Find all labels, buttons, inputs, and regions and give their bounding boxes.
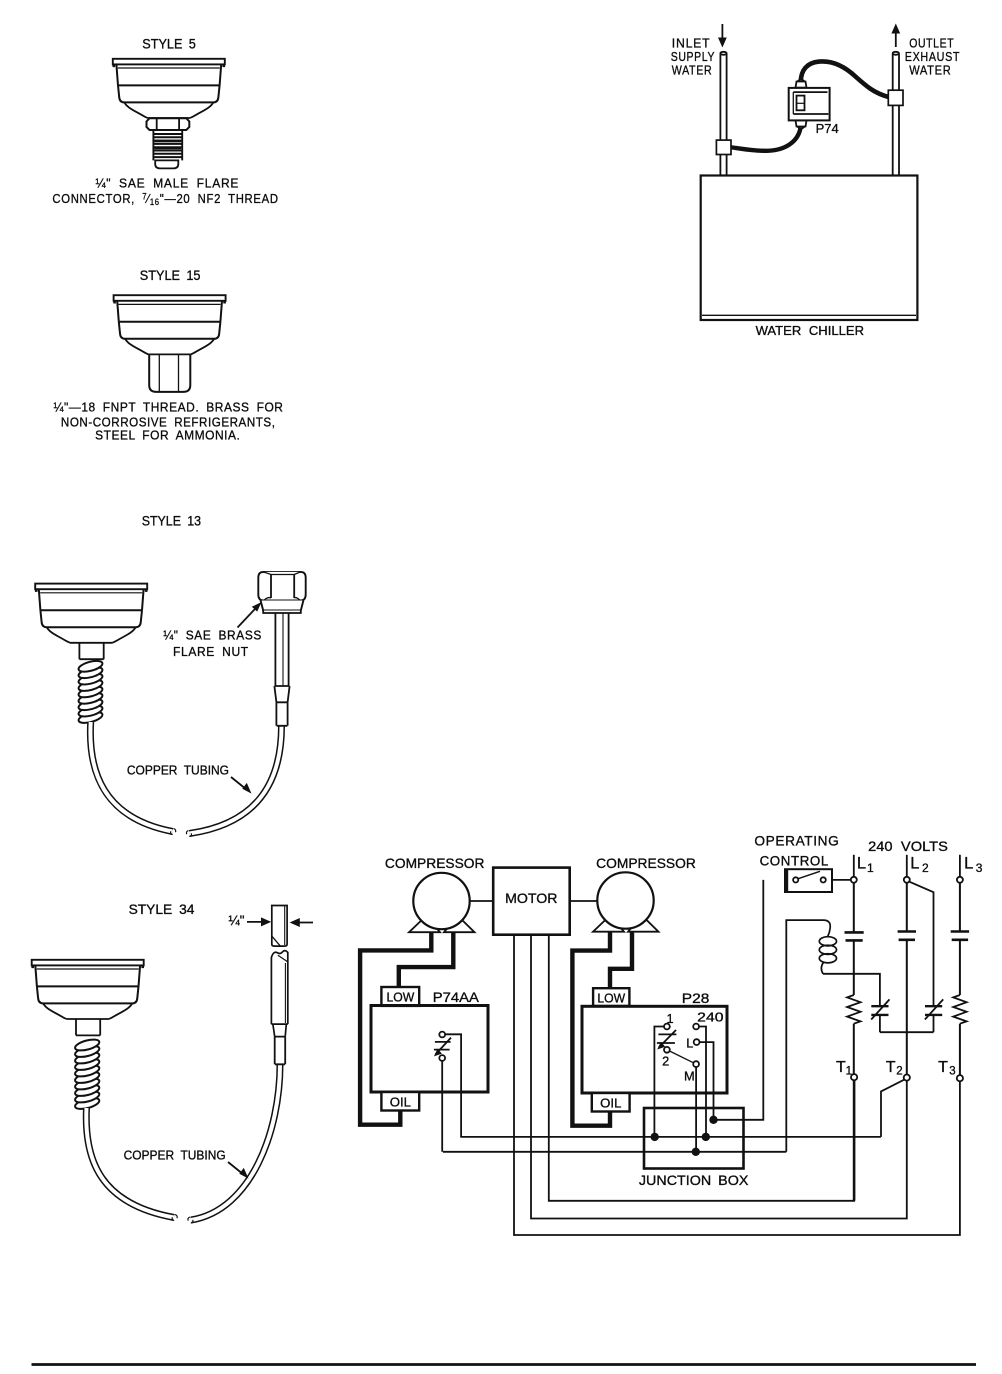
svg-text:STYLE 13: STYLE 13 [142,513,201,528]
style 34 copper tube left arc [86,1108,177,1221]
label 1/4 SAE BRASS FLARE NUT [163,628,262,659]
svg-text:WATER: WATER [672,62,713,77]
label OUTLET EXHAUST WATER [905,36,960,78]
L3 wire upper [959,883,961,932]
L2 terminal [904,855,910,883]
style 13 flare nut [258,572,305,613]
style 15 control body [114,295,226,354]
outlet pipe [893,52,899,176]
style 13 coil spring [77,659,103,725]
junction box [644,1108,744,1169]
svg-text:240 VOLTS: 240 VOLTS [868,839,948,854]
arrow to tube (style 13) [231,777,252,794]
capillary from P74 to outlet pipe [801,61,889,97]
style 13 stem [79,643,103,659]
P74AA OIL port [381,1092,419,1111]
P28 terminal 240 [693,1010,723,1030]
P28 terminal 1 [664,1011,674,1029]
junction dot A [651,1133,659,1141]
L1 wire lower [853,1024,855,1074]
svg-text:WATER CHILLER: WATER CHILLER [756,323,864,338]
P74AA LOW port [381,987,419,1006]
wire operating control to L1 [832,879,851,881]
water chiller tank [701,176,918,321]
L3 wire middle [959,940,961,995]
svg-text:L: L [964,855,973,873]
svg-text:FLARE NUT: FLARE NUT [173,644,249,659]
svg-text:¼"—18 FNPT THREAD. BRASS FOR: ¼"—18 FNPT THREAD. BRASS FOR [54,399,284,414]
style 13 copper tube left arc [90,722,175,835]
capillary from P74 to inlet pipe [731,126,801,151]
T1 terminal [851,1074,857,1080]
svg-text:STYLE 5: STYLE 5 [142,36,196,51]
L2 wire lower [906,940,908,1075]
junction dot B [702,1133,710,1141]
style 5 hex nut [147,118,190,130]
motor lead wire to T2 loop [531,935,907,1219]
svg-text:JUNCTION BOX: JUNCTION BOX [639,1173,749,1189]
svg-text:STYLE 34: STYLE 34 [129,902,195,917]
label 1/4 inch (style 34) [229,913,245,928]
wire compressor 2 to LOW (P28) [610,915,632,989]
svg-text:COPPER TUBING: COPPER TUBING [127,763,229,778]
wire compressor 1 to OIL (P74AA) [360,915,431,1125]
compressor 1 label [385,856,485,871]
outlet arrow [891,24,900,48]
motor M1 [493,868,570,935]
svg-text:2: 2 [922,861,929,875]
style 5 pilot tip [155,160,178,168]
label 240 VOLTS [868,839,948,854]
style 5 control body [113,59,225,118]
label JUNCTION BOX [639,1173,749,1189]
L2 wire upper [906,883,908,932]
label L3 [964,855,983,875]
P28 terminal L [686,1036,699,1051]
L1 wire upper [853,883,855,933]
label L2 [910,855,929,875]
relay coil [819,920,836,974]
svg-text:¼" SAE MALE FLARE: ¼" SAE MALE FLARE [96,176,240,191]
L3 wire lower [959,1024,961,1075]
capacitor on L2 [898,932,916,940]
svg-text:P28: P28 [682,991,710,1006]
P74 control box [789,88,830,121]
relay coil feed wire [786,920,824,1152]
T2 terminal [904,1075,910,1081]
L1 terminal [851,855,857,883]
label STYLE 34 [129,902,195,917]
style 15 caption [54,399,284,442]
svg-text:OIL: OIL [600,1096,621,1111]
wire P74AA switch top to junction A [445,1034,461,1137]
style 5 threaded stud [153,130,182,160]
compressor 2 [593,872,659,931]
wire terminal 1 to junction A [654,1027,664,1137]
motor lead wire to T1 loop [549,935,854,1201]
svg-text:2: 2 [896,1066,902,1078]
label STYLE 5 [142,36,196,51]
label COPPER TUBING (style 13) [127,763,229,778]
wire P74AA switch bottom down [441,1061,443,1152]
svg-text:WATER: WATER [909,62,951,77]
label STYLE 13 [142,513,201,528]
style 34 coil spring [74,1037,100,1111]
wire motor to compressor 2 [570,900,598,902]
resistor on L3 [953,995,966,1024]
arrow to tube (style 34) [228,1162,249,1179]
label COPPER TUBING (style 34) [124,1147,226,1162]
svg-text:¼": ¼" [229,913,245,928]
wire coil to OL1 [823,974,880,1006]
wire T1 down [853,1080,856,1201]
T3 terminal [957,1075,963,1081]
style 34 copper tube right arc [188,1065,280,1224]
wire terminal M to junction D [695,1067,697,1152]
compressor 1 [409,873,475,932]
svg-text:L: L [686,1036,693,1051]
P28 box [582,1006,727,1093]
wire net at y1152 (P74AA switch to coil) [443,1151,786,1153]
svg-text:CONTROL: CONTROL [760,853,829,868]
wire terminal 240 to junction B [699,1027,706,1137]
svg-text:STEEL FOR AMMONIA.: STEEL FOR AMMONIA. [95,427,240,442]
outlet pipe fitting [888,90,903,105]
dimension arrows (style 34) [247,917,313,927]
svg-text:L: L [910,855,919,873]
style 34 top tube piece with break [272,906,287,947]
label P74 [816,121,839,136]
style 34 bulb tube with break [271,951,287,1065]
style 13 copper tube right arc [186,726,281,837]
svg-text:COPPER TUBING: COPPER TUBING [124,1147,226,1162]
label T2 [886,1059,903,1078]
svg-text:¼" SAE BRASS: ¼" SAE BRASS [163,628,262,643]
motor lead wire to T3 loop [514,935,960,1235]
wire net at y1120 (L to operating control) [714,880,764,1120]
P28 terminal 2 [662,1047,670,1069]
junction dot D [692,1148,700,1156]
svg-text:1: 1 [867,861,874,875]
P28 LOW port [593,988,629,1006]
svg-text:P74AA: P74AA [433,990,480,1005]
label T1 [836,1059,852,1078]
svg-text:2: 2 [662,1054,669,1069]
P28 OIL port [592,1093,630,1112]
style 15 FNPT stem [149,355,190,392]
style 34 control body [32,960,144,1019]
svg-text:T: T [886,1059,896,1076]
P28 switch blade 2-M [670,1051,694,1063]
label L1 [857,855,874,875]
inlet arrow [718,24,727,48]
wire net at y1137 (P74AA switch to T2) [460,1136,881,1138]
wire OL1 to OL2 [880,1031,934,1033]
svg-text:OPERATING: OPERATING [754,834,839,849]
svg-text:T: T [938,1059,948,1076]
label WATER CHILLER [756,323,864,338]
style 34 stem [76,1019,100,1035]
label STYLE 15 [140,268,201,283]
label P74AA [433,990,480,1005]
operating control switch box [785,869,832,892]
bottom rule [32,1363,977,1366]
inlet pipe fitting [716,140,731,154]
style 5 caption [52,176,278,208]
svg-text:CONNECTOR, 7⁄16"—20 NF2 THREAD: CONNECTOR, 7⁄16"—20 NF2 THREAD [52,191,278,207]
wire L2 branch diagonal [909,882,933,1007]
L1 wire middle [853,940,855,995]
overload heater OL2 [925,999,943,1032]
label T3 [938,1059,956,1078]
svg-text:3: 3 [949,1066,955,1078]
svg-text:L: L [857,855,866,873]
svg-text:COMPRESSOR: COMPRESSOR [385,856,485,871]
svg-text:LOW: LOW [597,991,626,1006]
wire compressor 1 to LOW (P74AA) [399,915,454,988]
svg-text:T: T [836,1059,846,1076]
P74AA box [371,1006,488,1093]
label OPERATING CONTROL [754,834,839,869]
svg-text:STYLE 15: STYLE 15 [140,268,201,283]
svg-text:P74: P74 [816,121,839,136]
capacitor on L3 [951,932,969,940]
svg-text:3: 3 [976,861,983,875]
svg-text:MOTOR: MOTOR [505,891,558,906]
wire compressor 2 to OIL (P28) [572,915,610,1126]
arrow to flare nut [238,602,262,628]
svg-text:LOW: LOW [387,990,416,1005]
P74AA pressure switch [434,1032,451,1061]
inlet pipe [720,52,726,176]
style 13 control body [35,584,147,643]
svg-text:OIL: OIL [390,1095,411,1110]
resistor on L1 [847,995,860,1024]
junction dot C [709,1116,717,1124]
label INLET SUPPLY WATER [671,36,715,78]
capacitor on L1 [845,932,864,940]
svg-text:240: 240 [697,1010,723,1025]
svg-text:M: M [684,1069,695,1084]
L3 terminal [957,855,963,883]
wire compressor 1 to motor [470,900,494,902]
overload heater OL1 [871,999,889,1032]
svg-text:COMPRESSOR: COMPRESSOR [596,856,696,871]
compressor 2 label [596,856,696,871]
style 13 tube below nut [274,613,289,726]
P28 switch marks [657,1030,677,1050]
wire T2 diagonal to junction B [881,1080,904,1137]
P28 terminal M [684,1061,699,1083]
P74 control top nipple [796,80,807,88]
label P28 [682,991,710,1006]
P74 control bottom nipple [796,120,807,128]
wire terminal L to junction C [700,1042,714,1120]
